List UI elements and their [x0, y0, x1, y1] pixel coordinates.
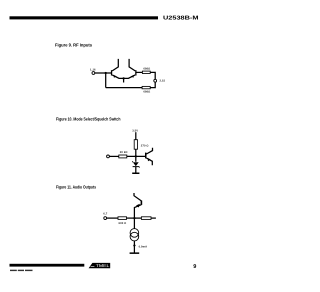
resistor R3: [134, 140, 137, 150]
resistor R1: [142, 71, 150, 73]
wire P1 to base Q1: [95, 72, 111, 74]
transistor Q1: [111, 59, 124, 79]
wire P2 to R2: [150, 82, 155, 88]
svg-text:0.9mA: 0.9mA: [139, 245, 148, 248]
header rule: [10, 16, 159, 19]
resistor R4: [119, 155, 127, 158]
footer rule: [10, 264, 85, 267]
emitter stub: [123, 78, 125, 82]
svg-text:270 Ω: 270 Ω: [141, 144, 149, 147]
wire I1 to ground: [133, 241, 135, 253]
current source I1: [130, 229, 139, 241]
footer doc number: [10, 270, 33, 271]
wire R3 down to node B: [135, 149, 137, 162]
transistor Q3: [145, 148, 153, 166]
wire R5 to R6: [127, 217, 142, 219]
svg-text:20 kΩ: 20 kΩ: [120, 151, 128, 154]
current arrow: [133, 245, 136, 248]
node A: [105, 72, 107, 74]
zener D1: [132, 161, 139, 167]
wire R1 to P2: [150, 72, 155, 79]
svg-text:9: 9: [193, 264, 196, 270]
resistor R5: [118, 217, 127, 220]
transistor Q2: [124, 59, 137, 79]
ground: [130, 252, 140, 254]
svg-text:680Ω: 680Ω: [143, 68, 150, 71]
svg-text:2,15: 2,15: [160, 80, 166, 83]
svg-text:600 Ω: 600 Ω: [119, 222, 127, 225]
svg-text:U2538B-M: U2538B-M: [163, 15, 199, 21]
node B: [135, 155, 137, 157]
wire base Q2 to R1: [137, 71, 143, 73]
svg-text:Figure 9. RF Inputs: Figure 9. RF Inputs: [55, 43, 93, 48]
wire D1 to ground: [135, 167, 137, 173]
ground: [132, 173, 139, 175]
svg-text:3.5V: 3.5V: [132, 129, 138, 132]
wire supply down: [135, 132, 137, 140]
node C: [133, 217, 135, 219]
wire P4 to R5: [107, 217, 118, 219]
svg-text:TMEL: TMEL: [96, 263, 111, 268]
resistor R2: [142, 86, 150, 88]
svg-text:Figure 10. Mode Select/Squelc: Figure 10. Mode Select/Squelch Switch: [56, 117, 121, 122]
wire bottom horizontal: [106, 87, 143, 89]
wire P3 to R4: [109, 155, 118, 157]
wire node A down: [105, 73, 107, 88]
pin P3: [107, 155, 110, 158]
svg-text:6,7: 6,7: [103, 212, 107, 215]
transistor Q4: [134, 193, 142, 218]
wire R6 stub: [151, 217, 156, 219]
Atmel logo: [89, 263, 111, 268]
pin P1: [92, 72, 95, 75]
pin P2: [154, 79, 157, 82]
resistor R6: [141, 217, 151, 220]
wire node C down: [133, 218, 135, 229]
wire R4 to base Q3: [127, 155, 145, 157]
pin P4: [104, 217, 107, 220]
svg-text:680Ω: 680Ω: [143, 91, 150, 94]
svg-text:Figure 11. Audio Outputs: Figure 11. Audio Outputs: [56, 184, 96, 189]
svg-text:1,16: 1,16: [90, 68, 96, 71]
emitter node: [122, 77, 124, 79]
